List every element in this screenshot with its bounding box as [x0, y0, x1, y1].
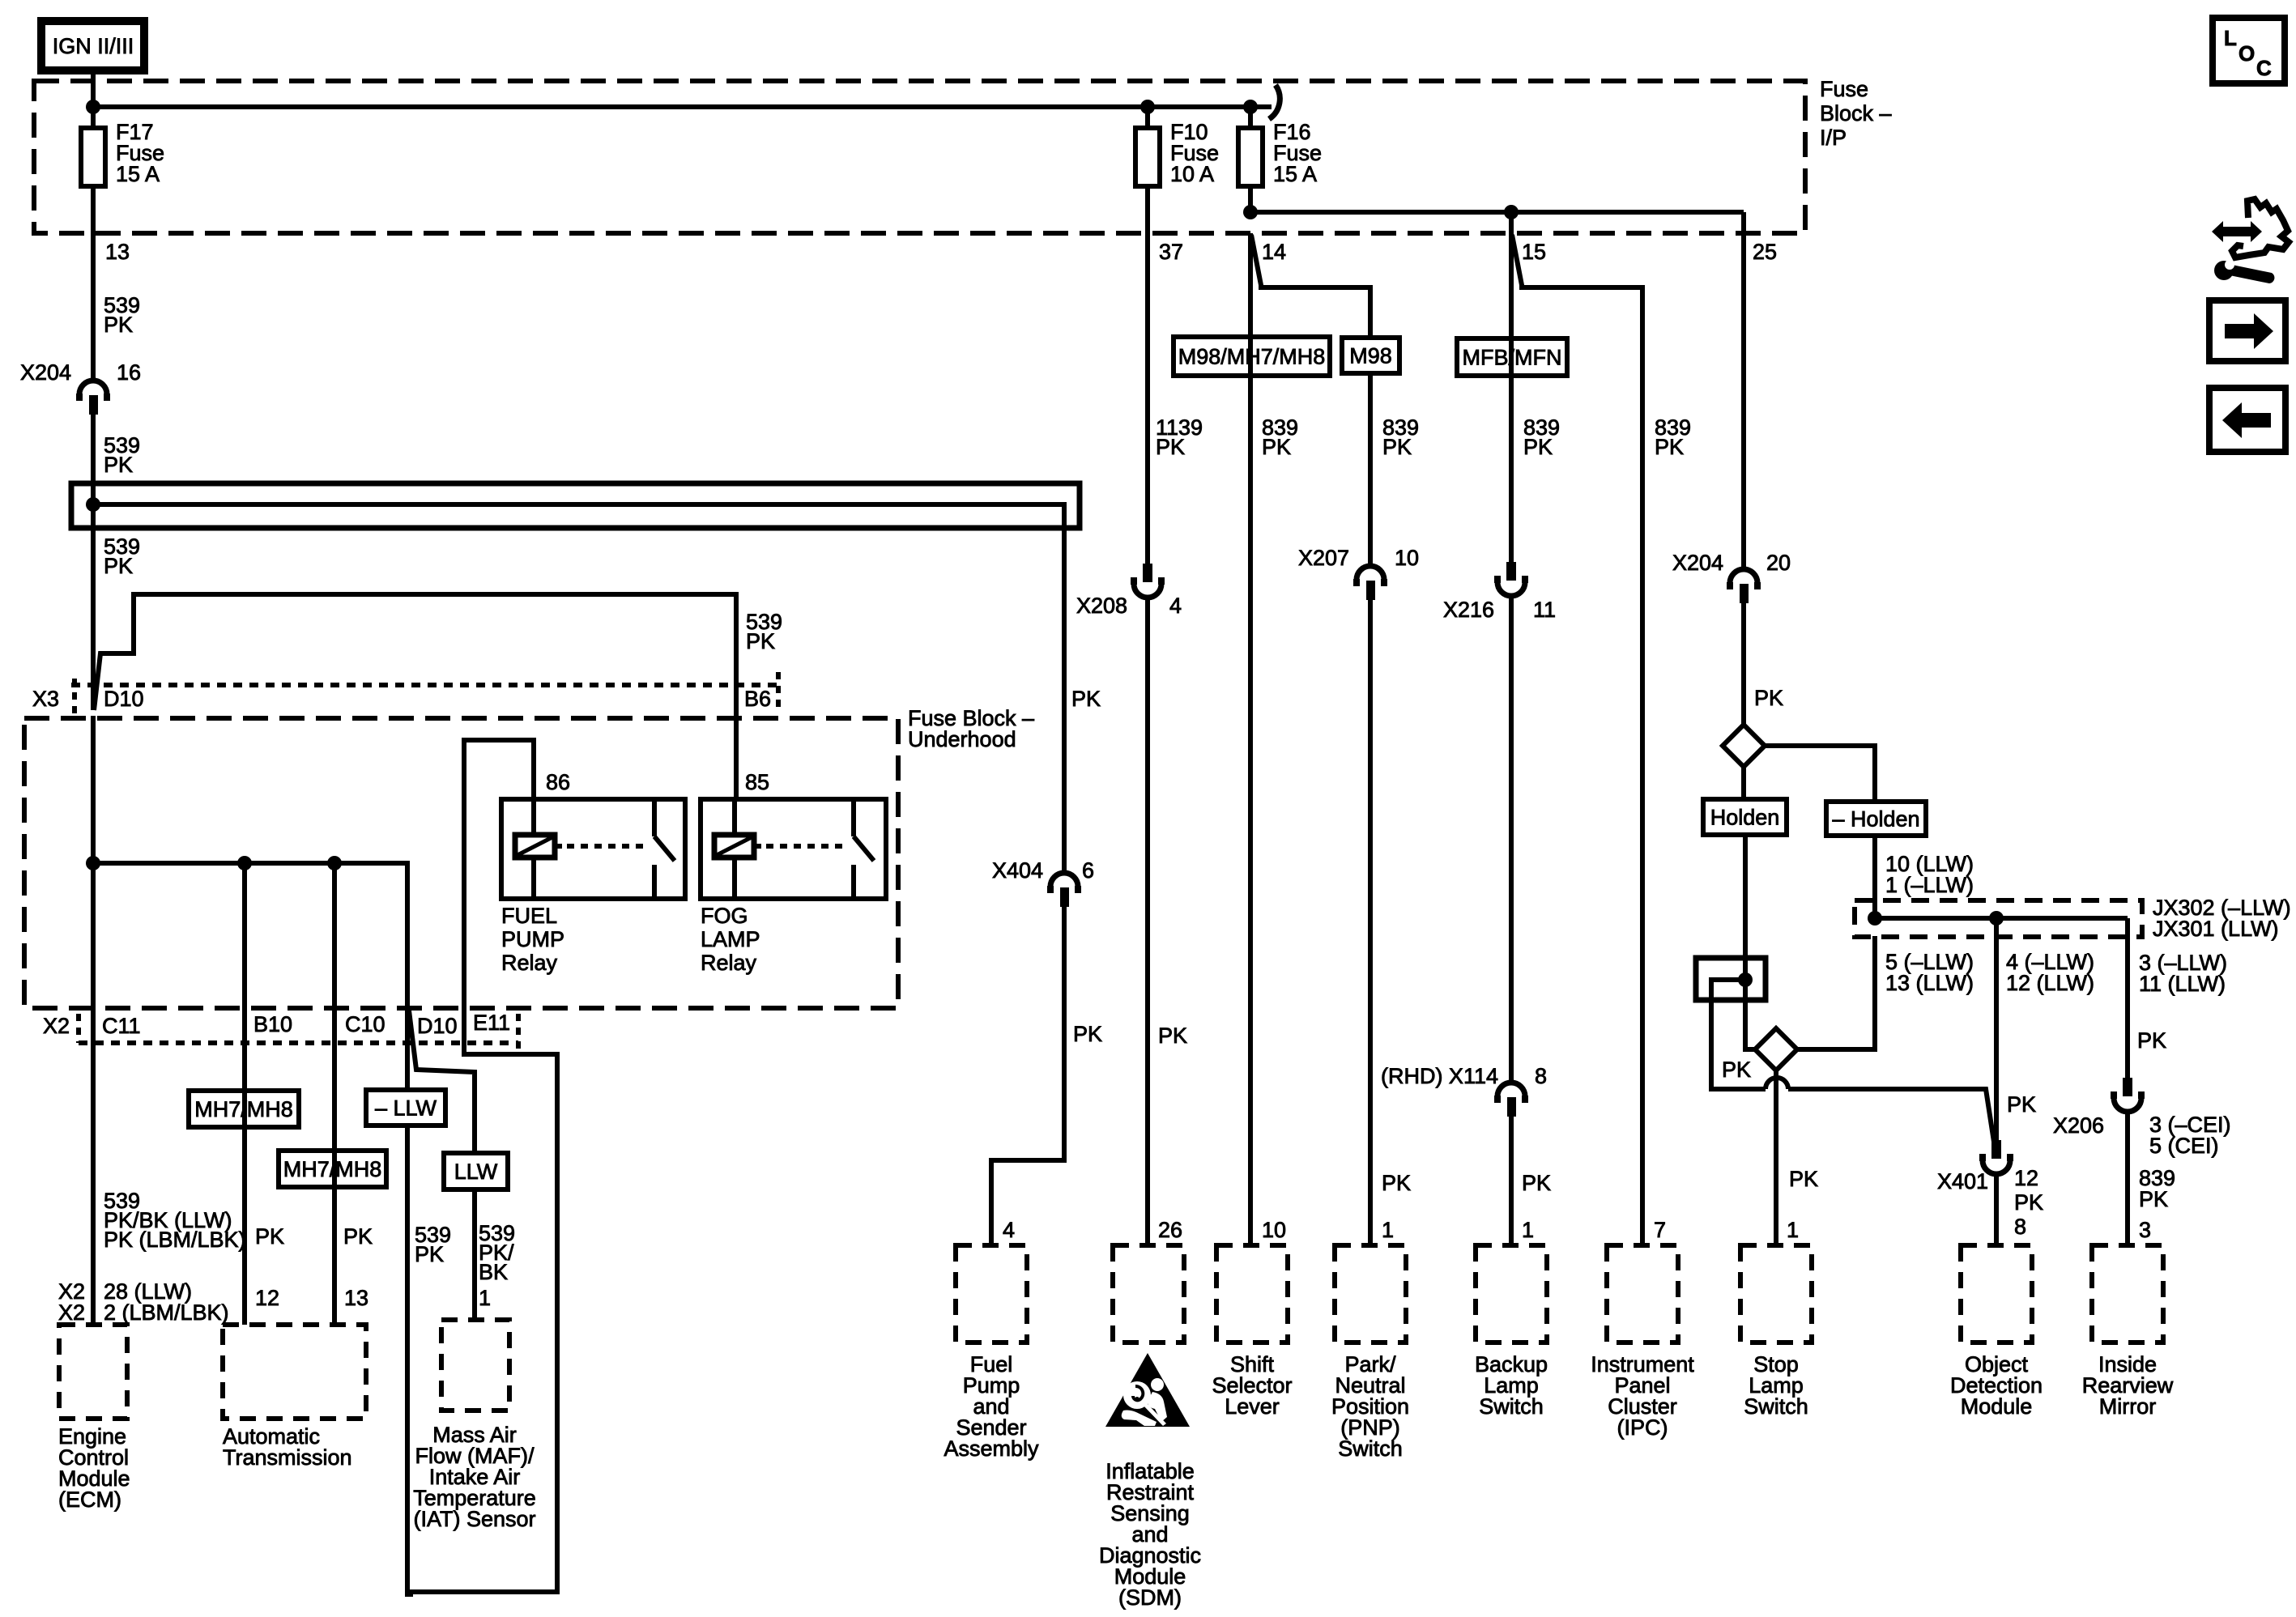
node junction at F16 top — [1243, 100, 1258, 114]
svg-text:– LLW: – LLW — [375, 1096, 437, 1121]
wire end curl at F16 — [1269, 85, 1280, 119]
svg-text:PK: PK — [1158, 1023, 1187, 1048]
wire MAF sensor feed — [472, 1189, 477, 1320]
wire -Holden to junction — [1872, 836, 1877, 918]
svg-text:PK: PK — [104, 313, 133, 337]
svg-text:PK: PK — [1523, 435, 1553, 459]
svg-text:BK: BK — [479, 1260, 508, 1284]
option tag MFB/MFN — [1457, 338, 1567, 376]
svg-text:3: 3 — [2139, 1218, 2151, 1242]
svg-text:PK: PK — [255, 1224, 284, 1249]
wire diamond2 right link — [1797, 936, 1875, 1049]
svg-text:Switch: Switch — [1479, 1394, 1544, 1419]
option tag -Holden — [1826, 802, 1926, 836]
bus bar outer box — [71, 483, 1080, 528]
option tag Holden — [1703, 799, 1787, 835]
wire to X401 — [1788, 1089, 1994, 1142]
svg-text:8: 8 — [2014, 1215, 2026, 1239]
backup lamp switch box — [1476, 1245, 1547, 1343]
node junction at F17 top — [86, 100, 100, 114]
svg-text:1: 1 — [1522, 1218, 1534, 1242]
svg-text:PK: PK — [1156, 435, 1185, 459]
svg-text:PK: PK — [1754, 686, 1783, 710]
wire backup column — [1509, 212, 1514, 562]
wire PNP column — [1368, 373, 1373, 566]
svg-text:PK (LBM/LBK): PK (LBM/LBK) — [104, 1228, 246, 1252]
svg-text:Relay: Relay — [701, 951, 757, 975]
svg-text:5 (CEI): 5 (CEI) — [2149, 1134, 2219, 1158]
node junction main wire at bus — [86, 497, 100, 512]
fog lamp relay coil pins — [732, 799, 737, 835]
svg-text:15 A: 15 A — [116, 162, 160, 186]
svg-text:M98: M98 — [1349, 344, 1392, 368]
wire C11 through underhood box — [91, 716, 96, 1325]
connector row X2 right tick — [516, 1014, 521, 1049]
MAF connector dashed box — [441, 1320, 509, 1411]
svg-text:PK: PK — [1722, 1057, 1751, 1082]
wire distribution inside underhood — [93, 863, 407, 1012]
svg-text:PK: PK — [1073, 1022, 1102, 1046]
wire X216 to X114 — [1509, 595, 1514, 1083]
svg-text:Relay: Relay — [501, 951, 558, 975]
svg-text:37: 37 — [1159, 240, 1183, 264]
svg-text:MH7/MH8: MH7/MH8 — [283, 1157, 382, 1181]
legend LOC box — [2213, 18, 2285, 83]
svg-text:I/P: I/P — [1820, 126, 1847, 150]
connector row X2 left tick — [76, 1014, 81, 1043]
svg-text:10 A: 10 A — [1170, 162, 1214, 186]
splice block box — [1696, 958, 1766, 1000]
svg-text:6: 6 — [1082, 858, 1094, 883]
inline connector X208 pin 4 — [1143, 564, 1152, 582]
svg-text:13 (LLW): 13 (LLW) — [1885, 971, 1974, 995]
svg-text:X216: X216 — [1443, 598, 1494, 622]
svg-text:86: 86 — [546, 770, 570, 794]
option tag MH7/MH8 on B10 — [189, 1091, 299, 1127]
connector row X2 dotted line — [79, 1040, 518, 1045]
legend connector-view icon — [2232, 199, 2289, 257]
junction JX wires — [1875, 916, 2128, 921]
wire pin14 diagonal branch — [1251, 235, 1370, 338]
inline connector X401 pin 12 — [1991, 1140, 2001, 1159]
svg-text:FOG: FOG — [701, 904, 748, 928]
wire JX to X401 — [1994, 918, 1999, 1140]
node junction distribution at C11 — [86, 856, 100, 870]
fog lamp relay coil — [714, 835, 754, 857]
svg-text:Underhood: Underhood — [908, 727, 1016, 751]
wire diamond2 to stop lamp — [1774, 1070, 1778, 1245]
svg-text:PK: PK — [415, 1242, 444, 1266]
svg-text:12: 12 — [2014, 1166, 2038, 1190]
svg-text:25: 25 — [1753, 240, 1777, 264]
inline connector X206 pin 3 — [2123, 1078, 2132, 1096]
svg-text:11: 11 — [1533, 598, 1556, 622]
svg-text:PK: PK — [2007, 1092, 2036, 1117]
svg-text:13: 13 — [105, 240, 130, 264]
svg-text:PK: PK — [2139, 1187, 2168, 1211]
svg-text:PK: PK — [2137, 1028, 2166, 1053]
svg-text:X208: X208 — [1076, 594, 1127, 618]
svg-text:PK: PK — [2014, 1190, 2043, 1215]
svg-text:1 (–LLW): 1 (–LLW) — [1885, 873, 1974, 897]
svg-text:C11: C11 — [102, 1014, 141, 1038]
inside rearview mirror box — [2092, 1245, 2163, 1343]
node junction at F10 top — [1140, 100, 1155, 114]
branch wire to fog relay B6 — [94, 594, 736, 799]
legend back arrow box — [2209, 388, 2285, 452]
svg-text:M98/MH7/MH8: M98/MH7/MH8 — [1178, 345, 1326, 369]
wire pin 25 column — [1741, 212, 1746, 569]
inline connector X204 pin 20 — [1730, 569, 1757, 583]
stop lamp switch box — [1740, 1245, 1812, 1343]
svg-text:Holden: Holden — [1710, 806, 1780, 830]
wire diamond to -Holden — [1765, 746, 1875, 802]
wire 539 PK below F17 — [91, 233, 96, 381]
svg-text:10: 10 — [1262, 1218, 1286, 1242]
inline connector X404 pin 6 — [1050, 873, 1078, 887]
svg-text:O: O — [2238, 41, 2255, 66]
wire diamond to Holden — [1741, 767, 1746, 799]
wire E11 to relay 86 — [410, 740, 557, 1592]
svg-text:1: 1 — [479, 1286, 491, 1310]
object detection module box — [1961, 1245, 2032, 1343]
wire hop over stop lamp wire — [1766, 1078, 1788, 1089]
inline connector X204 pin 16 — [79, 381, 107, 394]
wire pin15 diagonal branch — [1512, 235, 1642, 1245]
svg-text:D10: D10 — [417, 1014, 458, 1038]
wire from IGN tag down — [91, 70, 96, 109]
svg-text:PK: PK — [343, 1224, 373, 1249]
svg-text:26: 26 — [1158, 1218, 1182, 1242]
svg-text:20: 20 — [1766, 551, 1791, 575]
svg-text:X204: X204 — [20, 360, 71, 385]
node junction pin 15 tap — [1504, 205, 1519, 219]
node junction C10 tap — [327, 856, 342, 870]
wire 539 PK to bus — [91, 415, 96, 504]
splice block inner wire — [1711, 980, 1766, 1089]
fuel pump relay switch — [652, 799, 657, 836]
svg-text:13: 13 — [344, 1286, 368, 1310]
svg-text:Switch: Switch — [1338, 1436, 1403, 1461]
svg-text:X404: X404 — [992, 858, 1043, 883]
svg-text:LLW: LLW — [454, 1160, 498, 1184]
power source tag IGN II/III — [41, 21, 144, 70]
svg-text:C: C — [2256, 56, 2272, 80]
wire X404 to fuel pump — [991, 907, 1064, 1245]
svg-text:14: 14 — [1262, 240, 1286, 264]
svg-text:X207: X207 — [1298, 546, 1349, 570]
node splice dot — [1738, 972, 1753, 987]
wire shift selector column — [1248, 233, 1253, 1245]
svg-text:10: 10 — [1395, 546, 1419, 570]
fuse block I/P dashed box — [34, 81, 1805, 233]
svg-text:Switch: Switch — [1744, 1394, 1808, 1419]
svg-text:PK: PK — [1382, 1171, 1411, 1195]
svg-text:B6: B6 — [744, 687, 771, 711]
svg-text:2 (LBM/LBK): 2 (LBM/LBK) — [104, 1300, 229, 1325]
svg-text:12 (LLW): 12 (LLW) — [2006, 971, 2094, 995]
svg-text:PK: PK — [1522, 1171, 1551, 1195]
wire X206 to mirror — [2125, 1111, 2130, 1245]
option tag LLW on MAF wire — [444, 1153, 508, 1189]
splice diamond lower — [1755, 1028, 1797, 1070]
wire X204-20 to diamond — [1741, 603, 1746, 725]
option tag -LLW on D10 — [366, 1090, 445, 1126]
SDM box — [1113, 1245, 1184, 1343]
inline connector X114 pin 8 — [1497, 1083, 1525, 1096]
wire X114 to backup switch — [1509, 1117, 1514, 1245]
wire X401 to ODM — [1994, 1172, 1999, 1245]
node JX302 junction right — [1989, 911, 2004, 926]
node junction B10 tap — [237, 856, 252, 870]
node junction at F16 bottom — [1243, 205, 1258, 219]
fuel pump relay coil pin 86 wire — [531, 762, 536, 835]
svg-text:11 (LLW): 11 (LLW) — [2139, 972, 2226, 996]
svg-text:PK: PK — [746, 629, 775, 653]
connector row X3 dotted line — [71, 683, 778, 687]
svg-text:PK: PK — [1262, 435, 1291, 459]
svg-text:PK: PK — [1655, 435, 1684, 459]
svg-text:Fuse: Fuse — [1820, 77, 1868, 101]
svg-text:(SDM): (SDM) — [1118, 1585, 1182, 1610]
svg-text:12: 12 — [255, 1286, 279, 1310]
fuel pump relay contact dashes — [567, 844, 648, 849]
svg-text:PK: PK — [104, 554, 133, 578]
svg-text:LAMP: LAMP — [701, 927, 760, 951]
fuse F10 10A — [1145, 107, 1150, 130]
automatic transmission box — [223, 1325, 366, 1419]
svg-text:4: 4 — [1169, 594, 1182, 618]
svg-text:L: L — [2224, 26, 2237, 50]
inline connector X207 pin 10 — [1357, 566, 1384, 580]
svg-text:X2: X2 — [58, 1300, 85, 1325]
wire X207 to PNP — [1368, 600, 1373, 1245]
svg-text:(IAT) Sensor: (IAT) Sensor — [413, 1507, 535, 1531]
svg-text:4: 4 — [1003, 1218, 1015, 1242]
fuse block underhood dashed box — [24, 718, 898, 1008]
svg-text:15 A: 15 A — [1273, 162, 1317, 186]
svg-text:PK: PK — [1789, 1167, 1818, 1191]
wire distribution below F16 — [1250, 210, 1744, 215]
fog lamp relay box — [701, 799, 886, 899]
svg-text:1: 1 — [1787, 1218, 1799, 1242]
svg-text:1: 1 — [1382, 1218, 1394, 1242]
svg-text:D10: D10 — [104, 687, 144, 711]
fuel pump sender box — [956, 1245, 1027, 1343]
legend forward arrow box — [2209, 300, 2285, 361]
svg-text:FUEL: FUEL — [501, 904, 557, 928]
svg-text:PK: PK — [1382, 435, 1412, 459]
svg-text:16: 16 — [117, 360, 141, 385]
wire D10 through -LLW to U — [407, 1126, 413, 1594]
svg-text:7: 7 — [1654, 1218, 1666, 1242]
engine control module box — [59, 1325, 127, 1419]
svg-text:15: 15 — [1522, 240, 1546, 264]
svg-text:IGN II/III: IGN II/III — [53, 34, 134, 58]
node JX302 junction left — [1868, 911, 1882, 926]
instrument panel cluster box — [1607, 1245, 1678, 1343]
wire B10 down — [242, 863, 247, 1325]
svg-text:PK: PK — [1071, 687, 1101, 711]
wire X404 column from bus — [1062, 870, 1067, 875]
wire bus inside fuse block I/P — [91, 104, 1272, 109]
svg-text:C10: C10 — [345, 1012, 386, 1036]
svg-text:Transmission: Transmission — [223, 1445, 352, 1470]
fog lamp relay switch — [851, 799, 856, 836]
svg-text:Assembly: Assembly — [944, 1436, 1039, 1461]
inline connector X216 pin 11 — [1506, 562, 1516, 581]
svg-text:8: 8 — [1535, 1064, 1547, 1088]
fog lamp relay contact dashes — [766, 844, 847, 849]
option tag M98/MH7/MH8 — [1174, 337, 1330, 376]
fuel pump relay box — [501, 799, 685, 899]
wire X208 to SDM — [1145, 597, 1150, 1245]
svg-text:MH7/MH8: MH7/MH8 — [194, 1097, 293, 1121]
wire D10 diagonal branch to MAF — [409, 1011, 475, 1153]
fuse F17 15A — [91, 107, 96, 130]
SDM warning triangle — [1105, 1353, 1190, 1427]
svg-text:X206: X206 — [2053, 1113, 2104, 1138]
wire 1139 PK SDM column — [1145, 233, 1150, 564]
svg-text:B10: B10 — [253, 1012, 292, 1036]
svg-text:X3: X3 — [32, 687, 59, 711]
svg-text:Lever: Lever — [1225, 1394, 1280, 1419]
wire C10 down — [332, 863, 337, 1325]
connector row X3 right tick — [776, 672, 781, 710]
option tag M98 — [1342, 338, 1399, 373]
wire Holden splice to diamond2 — [1745, 980, 1756, 1049]
svg-text:(ECM): (ECM) — [58, 1487, 121, 1512]
connector row X3 left tick — [72, 679, 77, 717]
wire Holden to splice block — [1743, 835, 1748, 980]
svg-text:X204: X204 — [1672, 551, 1723, 575]
svg-text:JX301 (LLW): JX301 (LLW) — [2153, 917, 2279, 941]
fuel pump relay coil lower pin — [531, 857, 536, 899]
svg-text:PK: PK — [104, 453, 133, 477]
wire D10 U-detour — [405, 1012, 410, 1090]
splice diamond upper — [1723, 725, 1765, 767]
park neutral position box — [1335, 1245, 1406, 1343]
svg-text:MFB/MFN: MFB/MFN — [1463, 346, 1562, 370]
svg-text:Module: Module — [1961, 1394, 2033, 1419]
svg-text:85: 85 — [745, 770, 769, 794]
svg-text:Mirror: Mirror — [2099, 1394, 2156, 1419]
svg-text:X401: X401 — [1937, 1169, 1988, 1194]
junction block JX dashed box — [1855, 900, 2142, 937]
svg-text:E11: E11 — [473, 1011, 510, 1035]
wire 539 PK below bus — [91, 504, 96, 710]
fuse F16 15A — [1248, 107, 1253, 130]
svg-text:– Holden: – Holden — [1832, 807, 1919, 832]
bus inner wire — [88, 504, 1064, 873]
shift selector lever box — [1216, 1245, 1288, 1343]
fuel pump relay coil — [515, 835, 555, 857]
svg-text:X2: X2 — [43, 1014, 70, 1038]
svg-text:PUMP: PUMP — [501, 927, 564, 951]
svg-text:Block –: Block – — [1820, 101, 1892, 126]
option tag MH7/MH8 on C10 — [279, 1151, 386, 1187]
svg-text:(IPC): (IPC) — [1617, 1415, 1668, 1440]
svg-text:(RHD) X114: (RHD) X114 — [1381, 1064, 1498, 1088]
